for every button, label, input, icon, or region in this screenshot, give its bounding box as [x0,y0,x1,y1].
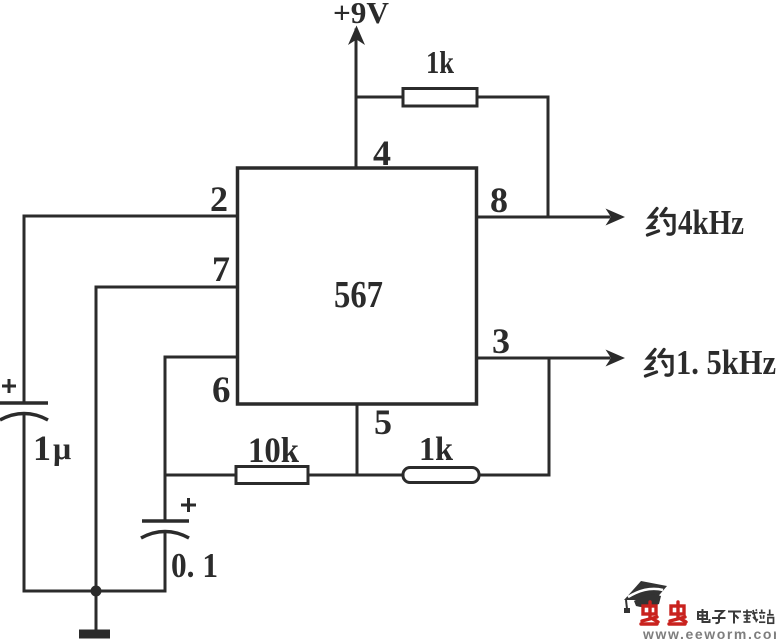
wire pin 8 output [476,216,609,219]
svg-text:7: 7 [212,249,230,289]
wire ground stub [95,591,98,630]
svg-text:2: 2 [210,179,228,219]
wire C1 bottom to ground rail [23,414,26,591]
svg-text:4kHz: 4kHz [678,203,744,242]
wire C2 bottom stub [164,532,167,591]
wire left vertical to C1 [23,216,26,403]
logo hanzi dian [698,609,710,622]
svg-text:www.eeworm.com: www.eeworm.com [642,626,776,640]
svg-text:+9V: +9V [333,0,390,30]
wire pin 2 horizontal [24,215,237,218]
wire supply vertical (+9V to pin 4) [355,30,358,168]
svg-text:0. 1: 0. 1 [171,546,218,585]
svg-text:1: 1 [33,428,51,468]
resistor R3 1k bottom [403,468,479,483]
logo tassel [626,600,627,609]
wire pin 3 corner down to R3 [548,358,551,475]
node junction dot [91,586,102,597]
resistor R2 10k [236,467,308,484]
resistor R1 1k top [403,89,477,107]
capacitor C2 0.1 curved plate [141,532,189,539]
power arrow +9V [348,26,365,46]
svg-text:1k: 1k [426,44,454,80]
arrow pin 8 output [606,209,626,226]
capacitor C1 1u curved plate [0,414,48,421]
wire pin 3 output [476,357,609,360]
logo hanzi zai [743,610,758,623]
logo hanzi chong 1 (red) [641,602,658,624]
svg-text:1. 5kHz: 1. 5kHz [676,343,776,382]
arrow pin 3 output [606,350,626,367]
label approx 1.5kHz : hanzi yue [646,350,673,377]
logo hanzi zi [712,611,726,623]
wire C2 top stub [164,476,167,521]
svg-text:3: 3 [492,321,510,361]
logo hanzi xia [728,612,741,624]
svg-text:6: 6 [212,370,231,411]
logo hanzi chong 2 (red) [669,602,686,624]
wire corner down to pin 8 line [547,97,550,217]
wire +9V branch to R1 [356,96,403,99]
svg-text:5: 5 [374,402,392,442]
capacitor C1 1u plus sign [2,379,16,393]
wire pin 6 vertical [164,357,167,476]
logo cap white stripe [628,589,663,597]
wire pin 7 horizontal [96,286,237,289]
wire R3 right to corner [479,474,549,477]
wire pin 5 vertical [356,404,359,475]
ground [79,630,110,639]
wire 10k to R3 left [308,474,403,477]
svg-text:567: 567 [334,274,383,316]
svg-text:1k: 1k [419,431,453,468]
wire pin 7 vertical [95,287,98,591]
capacitor C2 0.1 top plate [142,519,189,523]
capacitor C2 0.1 plus sign [181,498,196,512]
svg-text:4: 4 [373,133,391,173]
op-amp U1 IC 567 box [238,168,477,404]
svg-text:8: 8 [490,180,508,220]
svg-text:μ: μ [53,430,71,466]
capacitor C1 1u top plate [0,401,48,405]
wire R1 right to corner [477,96,548,99]
logo cap crown [634,595,661,607]
logo hanzi zhan [759,610,774,624]
wire pin 6 corner to 10k left [165,474,236,477]
wire pin 6 horizontal [165,356,237,359]
wire bottom ground rail [24,590,165,593]
label approx 4kHz : hanzi yue [648,209,675,236]
logo graduation cap board [624,581,667,600]
svg-text:10k: 10k [248,430,299,470]
